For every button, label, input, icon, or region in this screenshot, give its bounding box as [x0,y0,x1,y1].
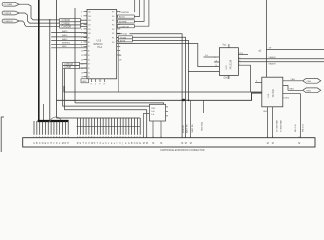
svg-text:ABUF EN: ABUF EN [185,124,188,133]
svg-text:ROM D8: ROM D8 [183,124,185,133]
connector pin rail [56,117,140,119]
wire box CVROM to PLA [80,63,88,65]
svg-text:BA13: BA13 [62,38,68,41]
U21 input pin stub [255,82,262,84]
svg-text:N: N [65,142,67,145]
Vcc pin U20 [228,44,230,48]
net label box AUD0 [118,15,135,18]
U20 output 1Y1 long wire right [238,58,324,60]
net label box ATMRA [118,20,135,23]
svg-text:U: U [85,142,87,145]
net label box PCM0 [117,36,119,38]
svg-text:M: M [272,142,274,145]
U20 input pin wire from bus [188,71,219,73]
svg-text:M: M [267,142,269,145]
svg-text:M: M [160,142,162,145]
vertical bus wire (thick) [38,0,40,121]
svg-text:1: 1 [95,84,96,86]
net label box ATML [117,39,119,41]
svg-text:CVDROM: CVDROM [119,26,129,28]
wire at left image edge [1,117,4,152]
wire from tag CVADDR to box CVADDR [20,21,60,26]
svg-text:M: M [298,142,300,145]
svg-text:BA15: BA15 [62,30,68,33]
wire net BA14 to PLA [51,36,87,38]
U20 output 1Y2 long wire right [238,61,324,63]
wire junction down to connector [190,100,192,137]
svg-text:GND: GND [82,81,87,83]
short vertical wire x43.6 [43,104,45,121]
svg-text:CVRDB: CVRDB [4,13,12,15]
svg-text:60 CAS RAM: 60 CAS RAM [276,120,279,132]
svg-text:ATMRA: ATMRA [119,21,127,24]
svg-text:74LS139: 74LS139 [230,59,233,69]
IC U20 74LS139 body [219,48,238,76]
svg-text:9: 9 [91,84,92,86]
svg-text:D: D [42,142,44,145]
svg-text:RAS: RAS [307,89,312,92]
U20 output 1Y3 down [238,65,250,92]
net label box CVROM [63,62,80,65]
PLA GND box [81,79,89,83]
svg-text:CVADDR: CVADDR [62,26,72,29]
wire net BRD to PLA [51,47,87,49]
junction dot 2 [188,99,190,101]
U20 input pin 1G [204,56,220,58]
bus wire B5 [65,69,147,138]
svg-text:H: H [50,142,52,145]
svg-text:M: M [181,142,183,145]
wire net BMREQ to PLA [51,43,87,45]
svg-text:CART EN: CART EN [191,124,194,133]
wire net BA15 to PLA [51,32,87,34]
svg-text:CVADDR: CVADDR [4,20,13,23]
PLA bottom pin stubs [90,79,92,82]
wire net BA13 to PLA [51,40,87,42]
U21 bottom pin wire 2 to connector [272,107,274,138]
thick bus trace to connector [38,120,69,122]
svg-text:WR 41 B: WR 41 B [303,123,305,132]
svg-text:5: 5 [239,57,240,59]
svg-text:10 BD0: 10 BD0 [283,98,291,100]
wire net ATML down to connector [132,40,188,100]
svg-text:9: 9 [99,84,100,86]
U21 output wire down to connector [283,94,301,138]
resistor pack RP1 box [150,104,166,121]
svg-text:ATML: ATML [120,39,126,42]
svg-text:CAS: CAS [307,80,312,83]
svg-text:BMREQ: BMREQ [62,43,70,45]
wire from tag CV RAM to box CVRAM [20,4,60,20]
net label box CVDROM [118,25,135,28]
svg-text:M: M [190,142,192,145]
U21 output to tag RAS [283,86,303,91]
RP1 left pin wire to connector [144,113,150,137]
vertical tap wire x118.6 [118,44,120,93]
wire box CVADDR to PLA [81,25,88,27]
junction dot [182,99,186,101]
edge connector bar [23,138,315,147]
bus wire B4 [63,69,150,107]
svg-text:RD 41 B: RD 41 B [295,124,297,132]
vertical bus wire 3 [56,0,58,118]
svg-text:D: D [137,142,139,145]
net label box CVMB [63,66,80,69]
connector pin rail lower [77,126,141,128]
svg-text:CARTRIDGE EXPANSION CONNECTO: CARTRIDGE EXPANSION CONNECTOR [160,149,205,152]
RP1 right pin stubs [166,106,169,108]
svg-text:CVMB: CVMB [64,67,71,69]
bus wire B2 to 74LS32 pin 2 [57,93,263,100]
op IC U19 82S100 PLA body [87,10,117,79]
svg-text:PLA: PLA [98,46,103,49]
svg-text:RASEN: RASEN [269,62,276,65]
svg-text:CAS: CAS [291,78,296,81]
svg-text:RAS: RAS [290,88,295,91]
svg-text:BA14: BA14 [62,34,68,37]
svg-text:4: 4 [239,53,240,55]
wire net CVDRNW turning up to top edge [116,11,119,13]
svg-text:7: 7 [239,64,240,66]
bus wire B1 to 74LS32 pin 1 [64,86,262,92]
svg-text:GND: GND [224,77,229,79]
svg-text:M: M [146,142,148,145]
wire box CVMB to PLA [80,67,88,69]
svg-text:CV RAM: CV RAM [4,3,13,6]
net label box CVRDB [60,22,81,25]
net tag CVRDB [2,11,19,15]
svg-text:C: C [39,142,41,145]
U21 bottom pin wire to connector [267,107,269,138]
net label box CVRAM [60,19,81,22]
wire box CVRAM to PLA [81,19,88,21]
U21 output to tag CAS [283,80,303,82]
svg-text:CASEN: CASEN [269,56,276,59]
net label box CVADDR [60,25,81,28]
svg-text:4: 4 [256,81,257,83]
svg-text:BRD: BRD [62,46,67,48]
svg-text:M: M [62,142,64,145]
svg-text:R: R [77,142,79,145]
net tag CAS [303,78,321,83]
IC U21 74LS32 body [262,77,283,107]
pin stub x203 [202,100,204,113]
svg-text:CVDRNW: CVDRNW [119,12,130,14]
wire net ATMRA turning up to top edge [116,20,119,22]
U20 output 1Y0 [238,54,248,56]
clock wire horizontal to right edge [266,48,324,50]
U20 input pin 1A [214,61,219,63]
RP1 bottom pins to connector [152,121,154,138]
wire net CVDROM turning up to top edge [116,25,119,27]
svg-text:M: M [143,142,145,145]
svg-text:M: M [152,142,154,145]
wire from PLA pin down to bus [117,44,220,67]
PLA right pin stubs [117,11,121,13]
svg-text:1G: 1G [205,55,208,57]
net tag CVADDR [2,19,19,23]
svg-text:61 RAS RAM: 61 RAS RAM [280,120,283,132]
svg-text:GND: GND [263,111,268,113]
svg-text:AUD0: AUD0 [119,16,126,19]
vertical bus wire x75 [74,8,76,103]
PLA left pin stubs [84,11,88,13]
GND pin U20 [228,75,230,79]
vertical bus wire 2 [49,19,51,121]
net tag CV RAM [2,2,19,6]
clock wire phi2 vertical [265,0,267,77]
svg-text:8: 8 [104,84,105,86]
wire net PCM0 to 74LS139 pin B [132,37,185,137]
svg-text:6: 6 [239,60,240,62]
svg-text:74LS32: 74LS32 [272,89,275,98]
wire box CVRDB to PLA [81,22,88,24]
connector pins group [33,121,35,135]
svg-text:SND ENA: SND ENA [201,121,204,131]
wire from tag CVRDB to box CVRDB [20,13,60,23]
svg-text:C: C [134,142,136,145]
svg-text:M: M [185,142,187,145]
wire hook arc [49,117,61,122]
bus wire B3 [75,103,164,104]
wire net AUD0 turning up to top edge [116,16,119,18]
net tag RAS [303,88,321,93]
